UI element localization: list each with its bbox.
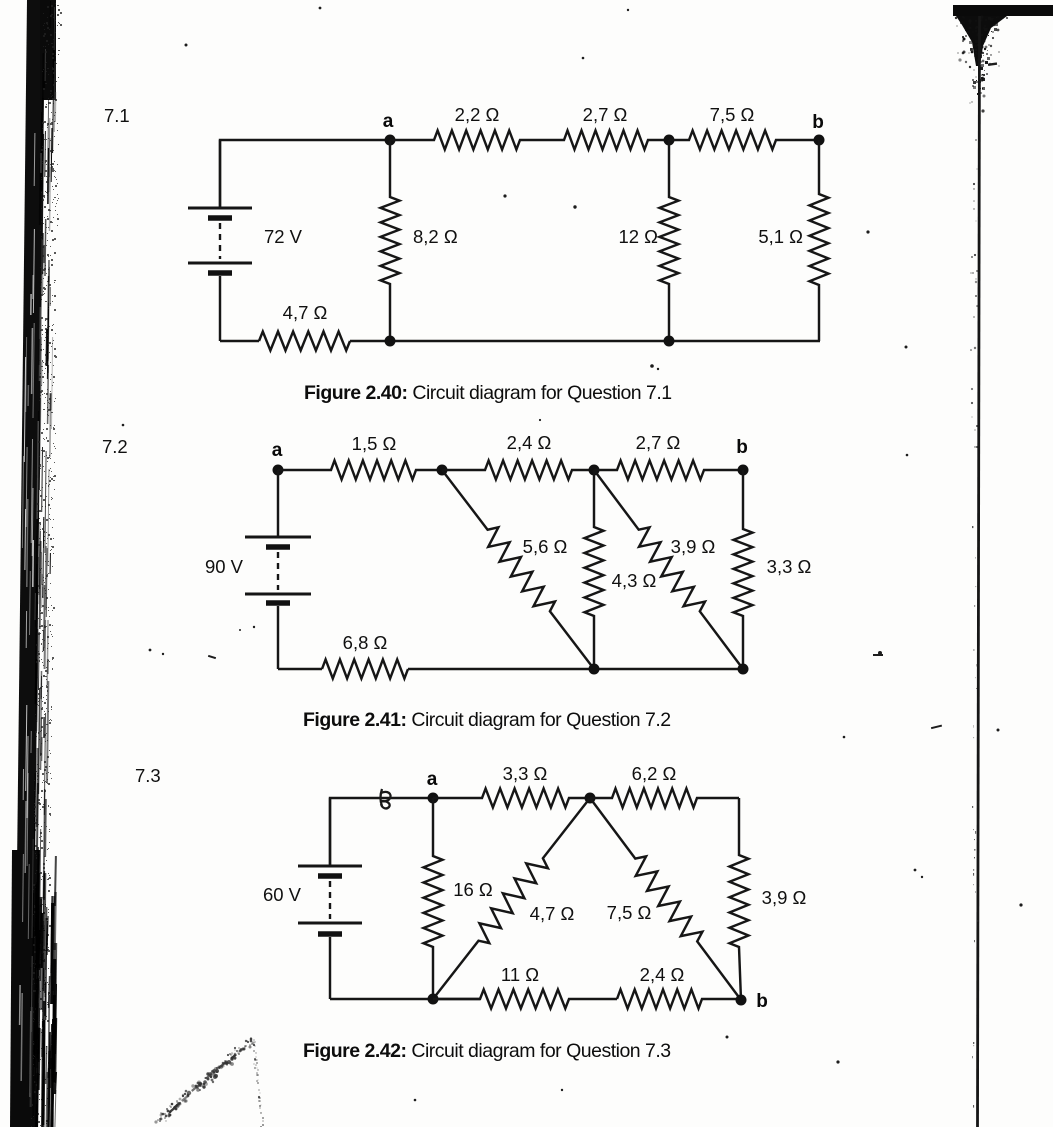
svg-text:4,7 Ω: 4,7 Ω [530, 903, 575, 924]
svg-text:b: b [756, 991, 768, 1012]
svg-text:5,1 Ω: 5,1 Ω [758, 226, 803, 247]
node junction top-middle (7.3) [585, 793, 596, 804]
svg-text:2,2 Ω: 2,2 Ω [455, 104, 500, 125]
scan artifact: top-right black bar and blob [953, 5, 1053, 448]
resistor 5,1 ohm (7.1 vertical right) [810, 140, 829, 341]
svg-text:11 Ω: 11 Ω [501, 964, 539, 985]
wire: 7.3 bottom rail (battery to node, left) [330, 998, 480, 1000]
svg-text:6,2 Ω: 6,2 Ω [632, 763, 677, 784]
svg-text:3,9 Ω: 3,9 Ω [762, 887, 807, 908]
svg-text:7.3: 7.3 [135, 765, 161, 786]
svg-text:8,2 Ω: 8,2 Ω [413, 226, 458, 247]
svg-text:7.2: 7.2 [102, 436, 128, 457]
resistor 3,3 ohm (7.3 top) [433, 789, 590, 808]
node b (7.2) [738, 465, 749, 476]
battery 60 V (7.3) [298, 798, 362, 999]
svg-text:60 V: 60 V [263, 884, 302, 905]
wire: 7.2 bottom rail left segment [278, 668, 322, 670]
wire: 7.1 bottom rail from 4.7 ohm to bottom-right corner [350, 340, 820, 342]
battery 90 V (7.2) [245, 470, 311, 669]
resistor 2,4 ohm (7.2) [442, 461, 594, 480]
wire: 7.2 bottom rail right segment [408, 668, 743, 670]
wire: 7.1 top rail left segment (battery+ to node a) [220, 140, 390, 208]
svg-text:a: a [383, 111, 394, 132]
svg-text:Figure 2.41: Circuit diagram f: Figure 2.41: Circuit diagram for Questio… [303, 709, 671, 731]
node junction bottom at 8,2 ohm (7.1) [385, 336, 396, 347]
svg-text:16 Ω: 16 Ω [453, 879, 493, 900]
node b (7.1) [814, 135, 825, 146]
node b (7.3) [736, 995, 747, 1006]
resistor 16 ohm (7.3 vertical at a) [424, 798, 443, 999]
wire: 7.3 top rail (battery to node a) [330, 798, 433, 866]
wire: 7.1 bottom rail from battery to 4.7 ohm [220, 340, 259, 342]
svg-text:2,7 Ω: 2,7 Ω [636, 432, 681, 453]
svg-text:2,7 Ω: 2,7 Ω [583, 104, 628, 125]
svg-text:b: b [736, 437, 748, 458]
svg-text:6,8 Ω: 6,8 Ω [343, 632, 388, 653]
svg-text:a: a [427, 769, 438, 790]
svg-text:5,6 Ω: 5,6 Ω [523, 536, 568, 557]
resistor 3,9 ohm (7.2 diagonal) [594, 470, 743, 669]
node junction top-1 (7.2) [437, 465, 448, 476]
resistor 6,8 ohm (7.2 bottom) [322, 660, 408, 679]
scan artifact: left page-spine dark band [10, 0, 62, 1127]
resistor 3,3 ohm (7.2 vertical right) [734, 470, 753, 669]
resistor 4,7 ohm (7.1 bottom) [259, 332, 350, 351]
resistor 3,9 ohm (7.3 vertical right) [730, 798, 749, 1000]
node a (7.3) [428, 793, 439, 804]
resistor 4,3 ohm (7.2 vertical) [585, 470, 604, 669]
node junction bottom-1 (7.2) [589, 664, 600, 675]
resistor 2,2 ohm (7.1) [390, 131, 560, 150]
svg-text:2,4 Ω: 2,4 Ω [640, 964, 685, 985]
resistor 7,5 ohm (7.3 diagonal right) [590, 798, 741, 1000]
node junction bottom at 12 ohm (7.1) [664, 336, 675, 347]
node junction top-middle (7.1) [664, 135, 675, 146]
svg-text:Figure 2.42: Circuit diagram f: Figure 2.42: Circuit diagram for Questio… [303, 1040, 671, 1062]
svg-text:3,9 Ω: 3,9 Ω [671, 536, 716, 557]
node junction bottom-2 (7.2) [738, 664, 749, 675]
svg-text:7.1: 7.1 [104, 105, 130, 126]
resistor 2,7 ohm (7.2) [594, 461, 743, 480]
resistor 11 ohm (7.3 bottom) [433, 990, 617, 1009]
svg-text:7,5 Ω: 7,5 Ω [607, 902, 652, 923]
svg-text:90 V: 90 V [205, 556, 244, 577]
resistor 8,2 ohm (7.1 vertical at node a) [381, 140, 400, 341]
svg-text:4,3 Ω: 4,3 Ω [612, 570, 657, 591]
resistor 1,5 ohm (7.2) [278, 461, 442, 480]
svg-text:1,5 Ω: 1,5 Ω [352, 433, 397, 454]
resistor 4,7 ohm (7.3 diagonal left) [433, 798, 590, 999]
svg-text:Figure 2.40: Circuit diagram f: Figure 2.40: Circuit diagram for Questio… [304, 382, 672, 404]
svg-text:72 V: 72 V [264, 226, 303, 247]
svg-text:2,4 Ω: 2,4 Ω [507, 432, 552, 453]
svg-text:b: b [812, 112, 824, 133]
node junction top-2 (7.2) [589, 465, 600, 476]
svg-text:12 Ω: 12 Ω [618, 226, 658, 247]
resistor 12 ohm (7.1 vertical middle) [660, 140, 679, 341]
svg-text:3,3 Ω: 3,3 Ω [767, 556, 812, 577]
node junction bottom-left (7.3) [428, 994, 439, 1005]
battery 72 V (7.1) [188, 140, 252, 341]
svg-text:7,5 Ω: 7,5 Ω [710, 104, 755, 125]
scan artifact: right vertical rule [972, 16, 980, 1127]
svg-text:a: a [272, 440, 283, 461]
resistor 2,7 ohm (7.1) [560, 131, 669, 150]
resistor 6,2 ohm (7.3 top) [590, 789, 739, 808]
resistor 2,4 ohm (7.3 bottom) [617, 990, 741, 1009]
svg-text:4,7 Ω: 4,7 Ω [283, 302, 328, 323]
node a (7.1) [385, 135, 396, 146]
resistor 5,6 ohm (7.2 diagonal) [442, 470, 594, 669]
svg-text:3,3 Ω: 3,3 Ω [503, 763, 548, 784]
scan artifact: small ink squiggle on 7.3 top wire [381, 789, 391, 808]
resistor 7,5 ohm (7.1) [669, 131, 819, 150]
node a (7.2) [273, 465, 284, 476]
scan artifact: pencil scribble bottom-left [154, 1037, 264, 1127]
